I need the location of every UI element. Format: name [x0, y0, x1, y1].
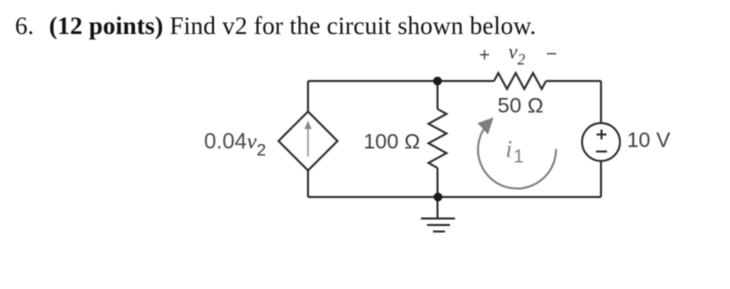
- dependent source U1 diamond: [279, 112, 338, 171]
- resistor R1 100ohm body: [429, 109, 447, 168]
- wire left branch lower: [307, 171, 309, 198]
- problem title text: [15, 14, 536, 39]
- V1 minus sign: [596, 151, 607, 153]
- node B junction dot: [434, 193, 443, 202]
- wire middle branch upper: [437, 81, 439, 109]
- svg-text:i1: i1: [506, 137, 524, 167]
- svg-text:0.04v2: 0.04v2: [204, 128, 266, 159]
- wire middle branch lower: [437, 168, 439, 197]
- dependent source arrow: [304, 121, 311, 157]
- wire right branch upper: [600, 81, 602, 123]
- svg-text:10 V: 10 V: [627, 129, 670, 152]
- svg-text:v2: v2: [509, 42, 526, 69]
- ground stem: [437, 197, 439, 218]
- node A junction dot: [433, 77, 442, 86]
- mesh current arrow i1: [478, 128, 556, 189]
- wire bottom: [308, 196, 601, 198]
- wire left branch upper: [307, 81, 309, 112]
- wire top left: node A to node B: [308, 80, 494, 82]
- svg-text:50 Ω: 50 Ω: [498, 93, 544, 117]
- ground bars: [421, 219, 455, 232]
- wire top right: 50ohm to right branch: [546, 80, 601, 82]
- mesh arrow head: [478, 118, 494, 135]
- resistor R2 50ohm body: [494, 73, 546, 89]
- V1 plus sign: [597, 130, 607, 140]
- wire right branch lower: [600, 161, 602, 197]
- svg-text:−: −: [546, 44, 557, 65]
- svg-text:+: +: [479, 45, 490, 66]
- voltage source V1 circle: [582, 123, 620, 161]
- svg-text:100 Ω: 100 Ω: [364, 130, 421, 153]
